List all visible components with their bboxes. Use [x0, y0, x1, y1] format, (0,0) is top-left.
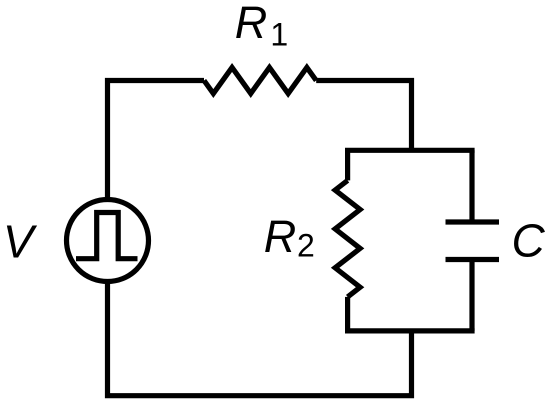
- wire bottom return: [108, 282, 412, 396]
- wire R2 branch bottom lead: [345, 297, 350, 331]
- capacitor C top plate: [446, 219, 500, 224]
- wire from R1 to node A: [316, 81, 411, 151]
- wire C branch bottom lead: [469, 260, 474, 331]
- svg-text:C: C: [512, 215, 546, 267]
- svg-text:2: 2: [297, 228, 315, 264]
- wire R2 branch top lead: [345, 150, 350, 180]
- wire top-left horizontal segment: [108, 81, 205, 200]
- svg-text:V: V: [3, 215, 38, 267]
- svg-text:1: 1: [270, 16, 288, 52]
- resistor R1: [204, 68, 316, 94]
- label R2: [264, 211, 315, 264]
- svg-text:R: R: [264, 211, 297, 262]
- node A top bar of parallel section: [348, 148, 472, 153]
- source V pulse waveform: [76, 213, 138, 259]
- capacitor C bottom plate: [446, 257, 500, 262]
- node B bottom bar of parallel section: [348, 328, 472, 333]
- svg-text:R: R: [235, 0, 268, 48]
- label R1: [235, 0, 288, 52]
- source V circle: [67, 200, 149, 282]
- resistor R2: [335, 180, 360, 297]
- wire C branch top lead: [469, 150, 474, 222]
